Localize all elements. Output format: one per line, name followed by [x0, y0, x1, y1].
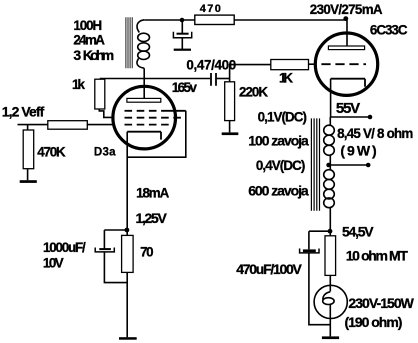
svg-text:230V/275mA: 230V/275mA: [310, 2, 383, 17]
svg-text:220K: 220K: [239, 85, 268, 100]
svg-text:600 zavoja: 600 zavoja: [248, 183, 309, 199]
svg-text:1,25V: 1,25V: [136, 210, 168, 226]
svg-text:100H: 100H: [73, 18, 102, 33]
svg-text:55V: 55V: [336, 100, 360, 117]
svg-text:8,45 V/ 8 ohm: 8,45 V/ 8 ohm: [337, 126, 413, 141]
svg-text:470uF/100V: 470uF/100V: [236, 261, 302, 277]
svg-text:1k: 1k: [72, 77, 86, 92]
svg-text:70: 70: [140, 244, 154, 259]
svg-text:(190 ohm): (190 ohm): [345, 314, 403, 330]
svg-text:( 9 W ): ( 9 W ): [340, 142, 376, 158]
svg-text:Kohm: Kohm: [83, 47, 115, 63]
svg-text:6C33C: 6C33C: [370, 23, 408, 38]
svg-text:0,47/400: 0,47/400: [186, 58, 236, 73]
svg-text:0,4V(DC): 0,4V(DC): [256, 158, 305, 173]
svg-text:1K: 1K: [279, 71, 293, 86]
svg-text:470K: 470K: [37, 145, 66, 160]
svg-text:230V-150W: 230V-150W: [348, 295, 414, 311]
svg-text:165v: 165v: [172, 80, 198, 95]
svg-text:100 zavoja: 100 zavoja: [248, 133, 309, 149]
svg-text:54,5V: 54,5V: [342, 223, 374, 239]
svg-text:18mA: 18mA: [136, 186, 170, 201]
svg-text:470: 470: [200, 3, 221, 15]
svg-text:24mA: 24mA: [73, 33, 105, 48]
svg-text:1000uF/: 1000uF/: [43, 240, 86, 255]
svg-text:3: 3: [73, 47, 81, 63]
svg-text:10V: 10V: [43, 255, 64, 270]
svg-text:0,1V(DC): 0,1V(DC): [258, 110, 307, 125]
svg-text:D3a: D3a: [94, 147, 116, 159]
svg-text:10 ohm MT: 10 ohm MT: [346, 247, 409, 263]
svg-text:1,2 Veff: 1,2 Veff: [2, 103, 45, 119]
